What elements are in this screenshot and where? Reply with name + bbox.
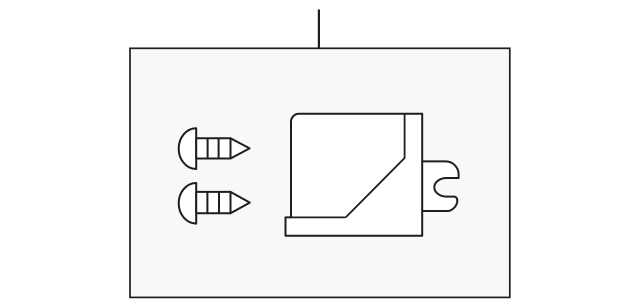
screw S1 thread line b xyxy=(218,138,220,158)
module panel edge (vertical + diagonal) xyxy=(346,114,405,218)
module right side edge across mounting tab xyxy=(421,161,423,211)
screw S1 thread line a xyxy=(207,138,209,158)
module body outline with mounting tab and base flange xyxy=(286,114,459,236)
screw S1 head xyxy=(179,128,197,169)
screw S2 tip xyxy=(231,192,250,213)
screw S2 thread line b xyxy=(218,192,220,213)
screw S1 tip xyxy=(231,138,250,158)
leader line xyxy=(318,10,320,49)
module base top edge line xyxy=(291,216,346,218)
screw S1 shank xyxy=(196,138,230,158)
screw S2 shank xyxy=(196,192,230,213)
parts box xyxy=(130,48,510,297)
screw S2 thread line a xyxy=(206,192,208,213)
screw S2 head xyxy=(179,183,197,224)
